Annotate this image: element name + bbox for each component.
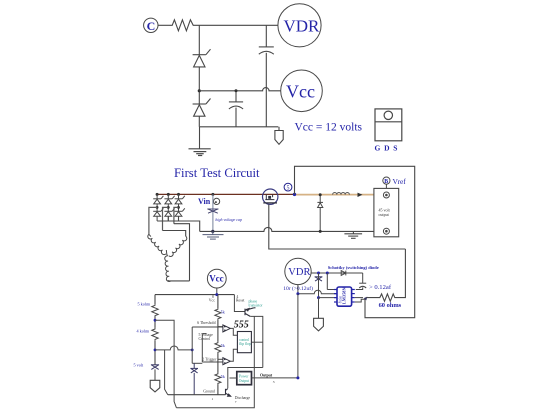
wire Vin vertical xyxy=(212,194,214,231)
svg-text:Vcc = 12 volts: Vcc = 12 volts xyxy=(295,122,363,134)
svg-text:60 ohms: 60 ohms xyxy=(379,302,402,309)
node junction C2 top xyxy=(235,89,238,92)
capacitor C2 xyxy=(229,102,243,109)
wire comp2 plus tap xyxy=(218,358,223,360)
wire pin1 horizontal xyxy=(327,289,337,291)
node return ground junction xyxy=(211,230,214,233)
wire left column top xyxy=(154,295,156,305)
wire control vertical left xyxy=(191,327,193,363)
svg-text:6 Threshold: 6 Threshold xyxy=(197,321,215,325)
output stage box xyxy=(237,372,252,385)
wire bottom return rail xyxy=(176,316,254,407)
wire R12 to comp1 xyxy=(217,320,219,342)
wire neg stub col2 xyxy=(167,216,169,221)
svg-text:4 kohm: 4 kohm xyxy=(137,328,150,333)
node bus junction 3 xyxy=(177,193,180,196)
wire diode right leg down xyxy=(362,273,364,283)
svg-text:Vcc: Vcc xyxy=(286,82,315,102)
wire comp1 out to flipflop xyxy=(230,328,237,335)
node tap B right xyxy=(191,349,194,352)
wire ground rail xyxy=(168,394,226,396)
capacitor C1 top right branch wire xyxy=(265,25,267,46)
wire return rail with hop xyxy=(200,227,374,231)
wire R10 to tap xyxy=(154,317,156,328)
zener Z5 xyxy=(151,365,159,370)
wire pin3 horizontal xyxy=(319,297,337,299)
svg-text:output: output xyxy=(379,212,390,217)
wire Vcc stub to rail xyxy=(216,288,218,295)
resistor R12 xyxy=(215,308,221,319)
svg-text:C: C xyxy=(147,19,156,33)
wire neg stub col3 xyxy=(178,216,180,221)
wire control stub xyxy=(202,333,206,335)
node C terminal circle xyxy=(144,18,158,32)
wire Z1 to mid junction xyxy=(198,67,200,104)
wire output riser xyxy=(297,294,299,378)
wire V+ brown bus xyxy=(157,193,294,195)
wire zener vertical to pin3 junction xyxy=(318,273,320,298)
wire C1 to bottom rail xyxy=(265,53,267,127)
node phase junction 1 xyxy=(156,206,159,209)
diode D7 xyxy=(317,202,323,207)
ground GND3 xyxy=(344,231,362,238)
svg-text:3: 3 xyxy=(273,380,275,384)
capacitor C1 xyxy=(259,47,274,54)
svg-text:First Test Circuit: First Test Circuit xyxy=(174,166,260,180)
transformer T1 left winding xyxy=(148,234,166,254)
node output riser junction xyxy=(296,376,299,379)
diode D1 top zener xyxy=(153,194,163,211)
node tap B xyxy=(154,349,157,352)
svg-text:Output: Output xyxy=(260,374,273,378)
svg-text:transistor: transistor xyxy=(249,304,264,308)
wire pin1 riser xyxy=(326,273,328,290)
diode D7 free-wheel stub xyxy=(319,195,321,203)
wire pin4R elbow xyxy=(355,299,365,302)
resistor R60 xyxy=(367,294,399,301)
node phase junction 3 xyxy=(177,206,180,209)
node B circle xyxy=(383,177,390,184)
svg-text:high voltage cap: high voltage cap xyxy=(215,217,242,222)
node bus junction 1 xyxy=(156,193,159,196)
svg-text:2 Trigger: 2 Trigger xyxy=(202,357,217,361)
svg-text:B: B xyxy=(384,179,388,185)
pentagon terminal P1 xyxy=(275,131,283,145)
node VDR bottom junction xyxy=(296,292,299,295)
wire vertical left branch from bus xyxy=(198,25,200,54)
wire control vertical right xyxy=(201,334,203,362)
IC U2 pins left xyxy=(334,290,337,303)
pentagon terminal P2 xyxy=(150,380,160,392)
wire C2 to bottom rail xyxy=(235,108,237,127)
mosfet Q1 circle xyxy=(263,189,278,204)
wire bottom rail of supply xyxy=(199,126,278,128)
diode D8 schottky xyxy=(339,271,350,276)
diode D3 top zener xyxy=(175,194,185,211)
VDR meter circle xyxy=(278,4,321,47)
ground GND1 stem xyxy=(199,127,201,149)
diode D2 bottom zener xyxy=(164,208,174,221)
diode D3 bottom zener xyxy=(175,208,185,221)
resistor R13 xyxy=(215,342,221,353)
wire tan bus xyxy=(295,194,374,196)
wire middle column top xyxy=(217,295,219,309)
svg-text:Discharge: Discharge xyxy=(235,396,251,400)
wire mosfet source drop xyxy=(269,204,406,249)
node junction left-mid xyxy=(198,89,201,92)
wire right leg to discharge loop xyxy=(228,368,263,389)
svg-text:flip flop: flip flop xyxy=(239,342,251,346)
wire threshold xyxy=(192,326,223,328)
load box output xyxy=(374,188,399,236)
ground GND1 xyxy=(189,149,211,156)
diode D1 bottom zener xyxy=(153,208,163,221)
terminal circle output minus xyxy=(383,228,389,234)
wire ground branch left xyxy=(165,350,168,395)
wire comp1 plus tap xyxy=(218,326,223,328)
wire phase hook 3 xyxy=(174,207,179,223)
svg-text:5 kohm: 5 kohm xyxy=(138,301,151,306)
svg-text:Vin: Vin xyxy=(198,197,211,206)
capacitor C2 stub top xyxy=(235,91,237,102)
flip flop box xyxy=(237,332,251,353)
transistor package U3 xyxy=(375,109,402,141)
wire transformer star point xyxy=(166,250,167,256)
wire P1 stub xyxy=(278,127,280,131)
wire neg jog row A xyxy=(157,221,200,231)
svg-text:8 pin: 8 pin xyxy=(339,296,343,303)
Vcc supply circle 2 xyxy=(207,269,226,288)
node bus junction 2 xyxy=(167,193,170,196)
wire pin3R to resistor xyxy=(355,297,363,299)
arrow current direction xyxy=(358,193,363,197)
svg-text:7: 7 xyxy=(235,400,237,404)
svg-text:Control: Control xyxy=(199,337,211,341)
mosfet Q1 internal symbol xyxy=(263,195,277,203)
wire D7 to return rail xyxy=(319,208,321,232)
varistor RV1 on Vin line xyxy=(207,209,218,213)
transformer T1 bottom winding xyxy=(165,256,170,282)
transistor Q2 phase xyxy=(245,308,256,317)
wire C3 to pin1R xyxy=(356,287,363,289)
wire junction to pentagon xyxy=(318,298,320,319)
node zener top junction xyxy=(317,272,320,275)
wire Vcc horizontal with hop xyxy=(199,88,280,91)
IC U2 pins right xyxy=(352,290,355,303)
node phase junction 2 xyxy=(167,206,170,209)
wire output to VDR riser xyxy=(252,377,298,379)
resistor R14 xyxy=(215,373,221,384)
inductor L1 xyxy=(333,193,350,195)
zener diode Z1 xyxy=(193,49,211,67)
wire phase hook 2 xyxy=(163,207,169,230)
node Vin probe circle xyxy=(214,198,220,204)
wire comp2 out to flipflop xyxy=(230,349,237,361)
wire phase hook 1 xyxy=(149,207,157,234)
wire R14 to ground rail xyxy=(217,384,219,395)
wire phase2 jog to right winding xyxy=(163,231,186,237)
resistor R1 xyxy=(170,20,197,31)
wire inner bottom xyxy=(192,362,202,364)
node rail junction vcc xyxy=(215,293,218,296)
svg-text:Vcc: Vcc xyxy=(209,274,224,284)
svg-text:5: 5 xyxy=(287,186,290,192)
wire flipflop out xyxy=(251,341,262,343)
wire Z2 to bottom rail xyxy=(198,116,200,127)
wire reset drop xyxy=(234,295,244,312)
wire big box top xyxy=(295,166,415,317)
wire trigger xyxy=(202,361,223,363)
diode D2 top zener xyxy=(164,194,174,211)
node 5 circle xyxy=(284,183,292,191)
wire R60 to box corner xyxy=(398,249,405,298)
svg-text:Power: Power xyxy=(239,374,249,378)
transistor arrow node kink xyxy=(364,297,368,301)
node tap A xyxy=(154,319,157,322)
svg-text:Schottky (switching) diode: Schottky (switching) diode xyxy=(328,265,379,270)
wire B stub xyxy=(385,184,387,188)
ground GND2 xyxy=(203,231,224,239)
wire zener to pentagon xyxy=(154,369,156,380)
wire emitter to right leg xyxy=(250,316,263,367)
transistor Q3 discharge xyxy=(226,389,231,397)
node pin1 riser junction xyxy=(326,272,329,275)
wire VDR node riser long xyxy=(298,285,337,294)
terminal circle output plus xyxy=(383,192,389,198)
IC U2 body xyxy=(337,287,352,306)
svg-text:Output: Output xyxy=(239,379,249,383)
node D7 top junction xyxy=(319,193,322,196)
zener Z4 xyxy=(190,363,198,394)
capacitor C3 xyxy=(359,283,366,288)
svg-text:Vref: Vref xyxy=(393,177,407,186)
wire VDR right to diode net xyxy=(311,272,363,274)
wire tap A across xyxy=(155,320,176,408)
svg-text:Ground: Ground xyxy=(203,389,215,393)
wire bottom winding lead xyxy=(167,280,189,282)
node bus junction box drop xyxy=(293,193,296,196)
svg-text:VDR: VDR xyxy=(284,17,321,36)
node pin3 junction xyxy=(317,296,320,299)
Vcc meter circle xyxy=(281,70,323,112)
node bus junction Vin xyxy=(211,193,214,196)
pentagon terminal P3 xyxy=(314,318,324,331)
VDR monitor circle 2 xyxy=(285,258,311,284)
wire C to resistor R1 xyxy=(158,24,170,26)
svg-text:Vcc: Vcc xyxy=(209,299,215,303)
wire tap B across with hop xyxy=(155,346,192,350)
svg-text:5 volt: 5 volt xyxy=(134,363,144,368)
op-amp comparator U1A xyxy=(223,325,230,332)
wire 555 top rail xyxy=(155,294,234,296)
node D7 bottom junction xyxy=(319,230,322,233)
wire R13 to comp2 xyxy=(217,353,219,373)
svg-text:> 0.12af: > 0.12af xyxy=(369,284,392,291)
op-amp comparator U1B xyxy=(223,358,230,365)
wire phase3 jog to winding wire xyxy=(174,224,190,281)
wire output stage left stub xyxy=(230,377,237,379)
wire R1 to VDR node xyxy=(196,24,278,26)
zener Z3 varistor xyxy=(315,277,323,281)
wire R11 to tap B xyxy=(154,340,156,364)
resistor R10 left top xyxy=(152,304,158,316)
svg-text:Reset: Reset xyxy=(236,299,245,303)
zener diode Z2 xyxy=(193,99,211,117)
svg-text:555: 555 xyxy=(234,320,249,331)
transformer T1 right winding xyxy=(169,236,187,256)
svg-text:G D S: G D S xyxy=(375,144,398,153)
svg-text:VDR: VDR xyxy=(288,267,310,278)
resistor R11 left lower xyxy=(152,328,158,340)
svg-text:1: 1 xyxy=(212,397,214,401)
